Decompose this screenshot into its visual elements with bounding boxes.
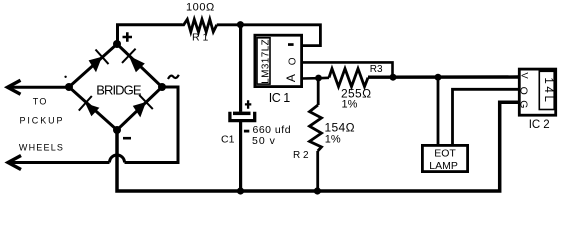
svg-text:WHEELS: WHEELS <box>19 143 64 153</box>
svg-text:G: G <box>518 100 530 108</box>
svg-text:1%: 1% <box>325 134 341 146</box>
svg-text:100Ω: 100Ω <box>186 1 215 13</box>
svg-text:R3: R3 <box>370 64 383 75</box>
svg-text:1%: 1% <box>342 98 358 110</box>
svg-text:LAMP: LAMP <box>429 160 458 172</box>
svg-text:IC 2: IC 2 <box>529 119 550 131</box>
svg-text:C1: C1 <box>221 133 235 145</box>
svg-text:R 2: R 2 <box>293 150 309 161</box>
svg-text:LM317LZ: LM317LZ <box>261 39 272 84</box>
svg-text:BRIDGE: BRIDGE <box>96 83 142 98</box>
svg-text:14L: 14L <box>542 77 554 104</box>
svg-text:O: O <box>287 57 298 65</box>
svg-text:PICKUP: PICKUP <box>20 116 65 126</box>
svg-text:154Ω: 154Ω <box>325 121 355 135</box>
svg-text:O: O <box>518 87 530 95</box>
svg-text:R 1: R 1 <box>192 32 209 44</box>
svg-text:TO: TO <box>33 97 48 107</box>
svg-text:50 v: 50 v <box>252 135 276 147</box>
svg-text:V: V <box>519 72 530 79</box>
svg-text:A: A <box>284 74 298 82</box>
svg-text:660 ufd: 660 ufd <box>253 124 292 136</box>
svg-text:IC 1: IC 1 <box>269 91 290 105</box>
svg-text:EOT: EOT <box>434 147 456 159</box>
